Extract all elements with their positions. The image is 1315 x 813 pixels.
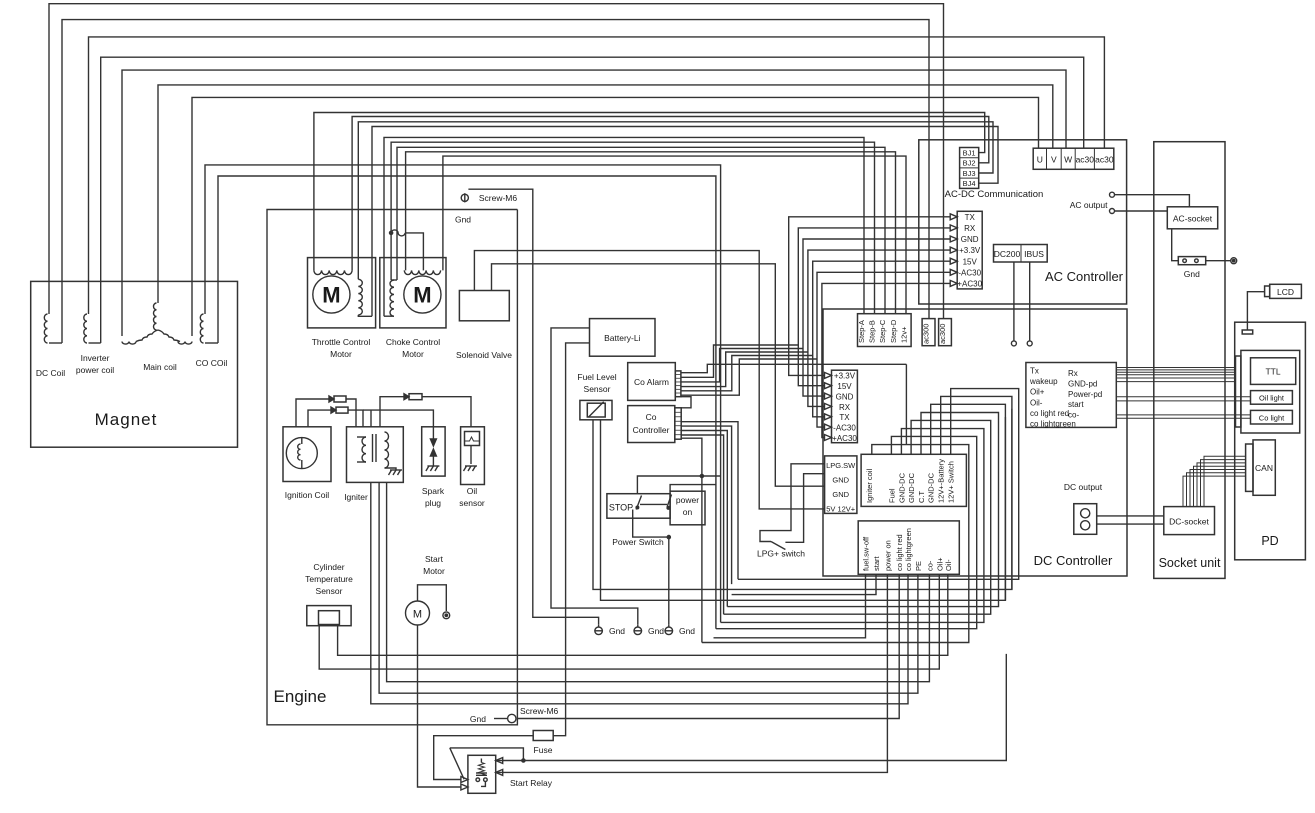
- start relay diagonal wire: [450, 748, 464, 779]
- wire inverter coil A to ac30-2: [89, 37, 1105, 282]
- svg-text:power: power: [676, 495, 699, 505]
- svg-text:TX: TX: [965, 213, 976, 222]
- co light wires: [1116, 414, 1250, 416]
- bj connector: [960, 148, 979, 189]
- link wire +3.3V: [808, 250, 950, 406]
- svg-text:+AC30: +AC30: [832, 434, 857, 443]
- dc200 wire to test point: [1013, 262, 1015, 341]
- dc-socket box: [1164, 507, 1215, 535]
- co alarm box: [628, 363, 676, 401]
- throttle motor winding top: [314, 270, 352, 274]
- svg-text:Power-pd: Power-pd: [1068, 390, 1102, 399]
- fuel.sw-off pin drop: [714, 574, 866, 638]
- ac300 connector 2: [939, 319, 952, 346]
- wire ignition coil to igniter 2: [308, 410, 331, 427]
- svg-text:co lightgreen: co lightgreen: [904, 528, 913, 571]
- cylinder temperature sensor box: [307, 606, 351, 626]
- screw-M6 bottom terminal: [508, 714, 516, 722]
- DC coil winding: [48, 281, 50, 314]
- svg-text:start: start: [1068, 400, 1084, 409]
- link wire TX: [789, 217, 951, 376]
- spark plug arrows: [432, 427, 434, 444]
- svg-text:LPG.SW: LPG.SW: [826, 461, 856, 470]
- svg-text:+3.3V: +3.3V: [834, 372, 856, 381]
- igniter core lines: [372, 434, 374, 462]
- svg-text:Sensor: Sensor: [316, 586, 343, 596]
- co controller connector stub: [675, 408, 681, 439]
- solenoid valve box: [459, 291, 509, 321]
- wire ac output 1 to ac-socket top: [1115, 195, 1190, 207]
- svg-text:Ignition Coil: Ignition Coil: [285, 490, 330, 500]
- fuel sensor wire right: [601, 417, 1006, 600]
- choke wire to Step-D: [406, 152, 896, 314]
- ac300 connector 1: [922, 319, 935, 346]
- igniter coil connector: [861, 454, 966, 506]
- lpg wire from LPG.SW pin: [760, 464, 825, 542]
- power switch net wire upper: [637, 476, 720, 494]
- gnd-dc pin wire 3: [931, 404, 1006, 600]
- svg-text:U: U: [1037, 155, 1043, 165]
- ground symbol gnd2: [634, 627, 642, 635]
- svg-text:15V: 15V: [837, 382, 852, 391]
- battery-li box: [590, 319, 656, 357]
- start motor top wire to ground dot: [418, 585, 447, 611]
- choke control motor box: [380, 258, 446, 328]
- wire dc output to dc-socket 2: [1097, 523, 1164, 525]
- link wire -AC30: [817, 272, 950, 427]
- spark plug box: [422, 427, 445, 476]
- co alarm wire 6: [681, 359, 817, 395]
- throttle wire to BJ3: [358, 122, 993, 279]
- choke wire to Step-A: [384, 137, 864, 316]
- svg-text:ac30: ac30: [1076, 155, 1095, 165]
- ground symbol gnd3: [665, 627, 673, 635]
- link wire RX: [798, 228, 950, 386]
- svg-text:GND-pd: GND-pd: [1068, 379, 1097, 388]
- start relay coil: [480, 759, 482, 763]
- wire start motor to relay: [418, 625, 462, 787]
- svg-text:co-: co-: [925, 560, 934, 571]
- igniter box: [347, 427, 404, 483]
- dc side 7pin connector: [832, 370, 858, 443]
- svg-text:DC200: DC200: [994, 249, 1021, 259]
- co alarm wire 4: [681, 352, 808, 387]
- co alarm wire 2: [681, 345, 798, 377]
- lcd box: [1270, 284, 1302, 298]
- ac-socket box: [1167, 207, 1217, 229]
- svg-text:Igniter: Igniter: [344, 492, 368, 502]
- svg-text:TTL: TTL: [1265, 367, 1280, 377]
- svg-text:Main coil: Main coil: [143, 362, 177, 372]
- svg-text:Power Switch: Power Switch: [612, 537, 664, 547]
- svg-text:Step-B: Step-B: [868, 320, 877, 343]
- wire relay right pin 1: [496, 758, 503, 764]
- choke motor winding top: [404, 270, 440, 274]
- ttl box: [1251, 358, 1296, 385]
- svg-text:M: M: [413, 609, 422, 621]
- svg-text:GND: GND: [836, 392, 854, 401]
- tx wakeup connector: [1026, 363, 1116, 428]
- wire screw gnd to PE pin: [517, 574, 899, 718]
- 12v-battery pin wire: [941, 396, 1012, 589]
- co controller wire 1: [681, 422, 738, 580]
- svg-text:Gnd: Gnd: [455, 215, 471, 225]
- co controller wire 2: [681, 426, 731, 584]
- stop box: [607, 494, 670, 519]
- co alarm connector stub: [675, 371, 681, 397]
- step connector: [858, 314, 912, 347]
- igniter wire b to fuel.sw pin: [379, 482, 918, 693]
- throttle motor circle M: [313, 276, 350, 313]
- fuel pin wire: [716, 436, 977, 628]
- svg-text:GND-DC: GND-DC: [897, 472, 906, 503]
- svg-text:M: M: [322, 283, 340, 308]
- svg-text:fuel.sw-off: fuel.sw-off: [862, 536, 871, 571]
- start relay box: [468, 755, 496, 793]
- svg-text:Screw-M6: Screw-M6: [520, 706, 559, 716]
- choke wire to Step-C: [397, 147, 885, 313]
- choke motor side coil: [390, 280, 394, 316]
- start relay top wire with junction: [450, 748, 524, 761]
- svg-text:Fuel: Fuel: [887, 488, 896, 503]
- svg-text:GND-DC: GND-DC: [907, 472, 916, 503]
- svg-text:LPG+ switch: LPG+ switch: [757, 549, 805, 559]
- oil sensor wire and rake: [470, 446, 472, 465]
- svg-text:STOP: STOP: [609, 503, 633, 513]
- oil light box: [1251, 391, 1293, 405]
- dc controller box: [823, 309, 1127, 576]
- svg-text:GND: GND: [832, 476, 849, 485]
- svg-text:5V 12V+: 5V 12V+: [826, 504, 856, 513]
- svg-text:CO COil: CO COil: [196, 358, 228, 368]
- svg-text:Engine: Engine: [274, 687, 327, 706]
- svg-text:wakeup: wakeup: [1029, 377, 1058, 386]
- svg-text:Start: Start: [425, 554, 444, 564]
- dc200 ibus connector: [994, 245, 1048, 263]
- svg-text:Throttle Control: Throttle Control: [312, 337, 371, 347]
- svg-text:C.T: C.T: [917, 491, 926, 504]
- svg-text:Co Alarm: Co Alarm: [634, 377, 669, 387]
- svg-text:15V: 15V: [963, 257, 978, 266]
- svg-text:Motor: Motor: [330, 349, 352, 359]
- svg-text:IBUS: IBUS: [1024, 249, 1044, 259]
- svg-text:Fuel Level: Fuel Level: [577, 372, 616, 382]
- svg-text:Motor: Motor: [423, 566, 445, 576]
- ac controller box: [919, 140, 1127, 304]
- svg-text:12V+ Switch: 12V+ Switch: [947, 461, 956, 503]
- fuel level sensor box: [580, 400, 612, 419]
- svg-text:ac300: ac300: [938, 324, 947, 344]
- ignition coil circle: [286, 438, 317, 469]
- wire inverter coil B to ac30-1: [101, 57, 1084, 281]
- svg-text:co lightgreen: co lightgreen: [1030, 420, 1076, 429]
- svg-text:DC Controller: DC Controller: [1034, 553, 1113, 568]
- svg-text:Oil: Oil: [467, 486, 478, 496]
- throttle motor side coil: [358, 279, 362, 315]
- svg-text:12v+: 12v+: [899, 326, 908, 343]
- svg-text:Co: Co: [646, 412, 657, 422]
- svg-text:RX: RX: [839, 403, 851, 412]
- svg-text:+AC30: +AC30: [957, 279, 982, 288]
- svg-text:Igniter coil: Igniter coil: [865, 468, 874, 503]
- choke motor circle M: [404, 276, 441, 313]
- svg-text:Gnd: Gnd: [679, 626, 695, 636]
- svg-text:power on: power on: [883, 540, 892, 571]
- svg-text:sensor: sensor: [459, 498, 485, 508]
- svg-text:Oil+: Oil+: [1030, 388, 1045, 397]
- igniter-coil pin wire: [702, 445, 969, 643]
- svg-text:TX: TX: [839, 413, 850, 422]
- wire fuse to relay pin: [434, 736, 534, 780]
- gnd-dc pin wire 1: [721, 429, 984, 623]
- start motor circle: [406, 601, 430, 625]
- svg-text:BJ2: BJ2: [963, 159, 976, 168]
- svg-text:Motor: Motor: [402, 349, 424, 359]
- igniter wire c to fuel.sw pin: [387, 482, 930, 681]
- svg-text:AC-socket: AC-socket: [1173, 214, 1213, 224]
- wire gnd bar to chassis point: [1206, 260, 1232, 262]
- svg-text:Screw-M6: Screw-M6: [479, 193, 518, 203]
- power switch net wire lower: [670, 485, 716, 492]
- oil sensor inner symbol: [465, 432, 480, 446]
- choke wire to Step-B: [391, 142, 874, 314]
- svg-text:Oil-: Oil-: [944, 559, 953, 571]
- igniter transformer left coil: [362, 437, 366, 462]
- svg-text:start: start: [872, 555, 881, 571]
- wire relay right pin 2 to start pin: [496, 769, 503, 775]
- svg-text:GND: GND: [832, 490, 849, 499]
- igniter wire a to fuel.sw pin: [371, 482, 908, 703]
- can bundle to dc-socket: [1204, 456, 1246, 506]
- svg-text:BJ1: BJ1: [963, 149, 976, 158]
- wire CO coil B to power-switch net: [218, 176, 716, 629]
- wire CO coil A to power-switch net: [205, 165, 721, 623]
- wire battery to gnd2: [551, 328, 638, 624]
- svg-text:Step-D: Step-D: [889, 319, 898, 343]
- CO coil winding: [204, 281, 206, 314]
- wire ac output 2 to ac-socket left: [1115, 210, 1168, 212]
- svg-text:AC Controller: AC Controller: [1045, 269, 1124, 284]
- svg-text:V: V: [1051, 155, 1057, 165]
- ac output terminals: [1110, 192, 1115, 197]
- gnd bar: [1178, 257, 1205, 265]
- svg-text:Gnd: Gnd: [648, 626, 664, 636]
- solenoid wire 1 to 5V12V+: [474, 251, 824, 509]
- co controller wire 3: [681, 431, 727, 607]
- wire cyl temp left pin: [319, 574, 939, 669]
- svg-text:PD: PD: [1261, 534, 1278, 548]
- start relay contacts: [476, 778, 480, 782]
- svg-text:Solenoid Valve: Solenoid Valve: [456, 350, 512, 360]
- co controller bottom wire to junction: [681, 438, 702, 642]
- svg-text:Fuse: Fuse: [534, 745, 553, 755]
- svg-text:power coil: power coil: [76, 365, 114, 375]
- svg-text:co light red: co light red: [1030, 409, 1069, 418]
- svg-text:plug: plug: [425, 498, 441, 508]
- main coil three-phase winding: [121, 281, 123, 336]
- igniter transformer right coil: [385, 432, 389, 468]
- wire battery to fuse: [553, 343, 589, 736]
- svg-text:Spark: Spark: [422, 486, 445, 496]
- wire switch to gnd3: [633, 510, 669, 538]
- ignition coil box: [283, 427, 331, 482]
- lpg connector: [825, 456, 857, 514]
- link wire GND: [803, 239, 950, 396]
- svg-text:on: on: [683, 507, 693, 517]
- dc output box: [1074, 504, 1097, 535]
- pd box: [1235, 322, 1306, 560]
- svg-text:Cylinder: Cylinder: [313, 562, 344, 572]
- wire DC coil A to ac300-2: [49, 4, 944, 319]
- throttle wire to BJ4: [372, 127, 998, 317]
- svg-text:LCD: LCD: [1277, 287, 1294, 297]
- svg-text:GND-DC: GND-DC: [927, 472, 936, 503]
- co- pin drop: [732, 574, 876, 594]
- link wire +AC30: [822, 283, 950, 437]
- svg-text:Inverter: Inverter: [81, 353, 110, 363]
- svg-text:co-: co-: [1068, 411, 1079, 420]
- svg-text:BJ4: BJ4: [963, 179, 976, 188]
- svg-text:W: W: [1064, 155, 1072, 165]
- tx connector ac side: [957, 211, 982, 289]
- svg-text:AC output: AC output: [1070, 200, 1108, 210]
- svg-text:12V+-Battery: 12V+-Battery: [937, 459, 946, 503]
- svg-text:-AC30: -AC30: [833, 424, 856, 433]
- igniter ground rake: [385, 468, 397, 470]
- inverter power coil winding: [88, 281, 90, 314]
- svg-text:Battery-Li: Battery-Li: [604, 333, 640, 343]
- svg-text:+3.3V: +3.3V: [959, 246, 981, 255]
- switch contacts and levers: [636, 506, 639, 509]
- c.t pin wire: [727, 413, 998, 607]
- svg-text:Co light: Co light: [1259, 413, 1285, 422]
- svg-text:BJ3: BJ3: [963, 169, 976, 178]
- wire igniter to oil sensor via diode: [380, 397, 404, 427]
- svg-text:Gnd: Gnd: [470, 714, 486, 724]
- power on box: [670, 491, 705, 525]
- fuel.sw connector: [858, 521, 959, 574]
- wire main coil W: [122, 70, 1066, 281]
- co light box: [1251, 410, 1293, 424]
- svg-text:DC-socket: DC-socket: [1169, 517, 1209, 527]
- svg-text:Temperature: Temperature: [305, 574, 353, 584]
- gnd-dc pin wire 2: [724, 420, 991, 614]
- can box: [1253, 440, 1275, 495]
- svg-text:Controller: Controller: [633, 425, 670, 435]
- wire dc output to dc-socket 1: [1097, 515, 1164, 517]
- svg-text:AC-DC Communication: AC-DC Communication: [945, 189, 1044, 200]
- wire main coil V: [158, 85, 1053, 282]
- svg-text:Magnet: Magnet: [95, 410, 158, 429]
- svg-text:GND: GND: [961, 235, 979, 244]
- co controller box: [628, 406, 675, 443]
- lpg switch lever: [771, 542, 785, 550]
- svg-text:Step-A: Step-A: [857, 320, 866, 343]
- svg-text:Oil-: Oil-: [1030, 398, 1043, 407]
- svg-text:Start Relay: Start Relay: [510, 778, 553, 788]
- co alarm wire 5: [681, 356, 813, 391]
- co alarm wire 3: [681, 349, 803, 382]
- ttl wire bundle: [1116, 367, 1235, 369]
- svg-text:Gnd: Gnd: [609, 626, 625, 636]
- wire igniter to spark plug: [370, 410, 372, 427]
- wire cyl temp right pin: [338, 574, 948, 655]
- oil sensor box: [461, 427, 485, 485]
- wire DC coil B to ac300-1: [62, 20, 929, 319]
- co alarm wire 1 drop: [905, 364, 907, 444]
- link wire 15V: [813, 261, 951, 417]
- ground symbol gnd1: [595, 627, 603, 635]
- svg-text:DC output: DC output: [1064, 482, 1103, 492]
- co controller wire 4: [681, 435, 723, 614]
- solenoid wire 2 to GND: [492, 264, 825, 486]
- svg-text:RX: RX: [964, 224, 976, 233]
- throttle wire to BJ1: [314, 113, 985, 271]
- throttle wire to BJ2: [352, 117, 989, 271]
- lpg wire to GND pin: [785, 474, 824, 543]
- svg-text:-AC30: -AC30: [958, 268, 981, 277]
- fuse: [533, 731, 553, 741]
- co alarm wire 1: [681, 364, 907, 372]
- engine box: [267, 210, 517, 725]
- svg-text:Step-C: Step-C: [878, 319, 887, 343]
- throttle control motor box: [308, 258, 376, 328]
- flexible wire to choke motor: [390, 231, 393, 234]
- svg-text:Socket unit: Socket unit: [1159, 556, 1221, 570]
- svg-text:Gnd: Gnd: [1184, 269, 1200, 279]
- svg-text:Oil light: Oil light: [1259, 394, 1285, 403]
- svg-text:CAN: CAN: [1255, 463, 1273, 473]
- svg-text:ac300: ac300: [922, 324, 931, 344]
- svg-text:Rx: Rx: [1068, 369, 1078, 378]
- wire ignition coil to igniter via diodes: [296, 399, 329, 427]
- wire stub bridge alarm to controller: [681, 397, 691, 408]
- ttl assembly box: [1241, 350, 1300, 433]
- svg-text:Tx: Tx: [1030, 367, 1039, 376]
- start motor ground dot: [443, 612, 450, 619]
- 12v-switch pin wire: [738, 389, 1019, 580]
- svg-text:PE: PE: [914, 561, 923, 571]
- svg-text:DC Coil: DC Coil: [36, 368, 65, 378]
- wire screw-M6 to engine gnd1: [468, 189, 598, 624]
- screw-M6 top terminal: [461, 194, 468, 201]
- choke wire to 12v+: [443, 156, 906, 314]
- svg-text:M: M: [413, 283, 431, 308]
- wire ac-socket to gnd bar: [1172, 229, 1179, 261]
- wire main coil U: [192, 97, 1039, 281]
- svg-text:ac30: ac30: [1095, 155, 1114, 165]
- fuel sensor wire left: [593, 409, 1012, 590]
- uvw connector table: [1033, 148, 1114, 169]
- svg-text:co light red: co light red: [895, 534, 904, 571]
- ibus wire to test point: [1029, 262, 1031, 341]
- wire lcd to pd top pad: [1247, 292, 1264, 330]
- oil light wires: [1116, 396, 1250, 398]
- svg-text:Choke Control: Choke Control: [386, 337, 440, 347]
- socket unit box: [1154, 142, 1225, 579]
- magnet box: [31, 281, 238, 447]
- svg-text:Sensor: Sensor: [584, 384, 611, 394]
